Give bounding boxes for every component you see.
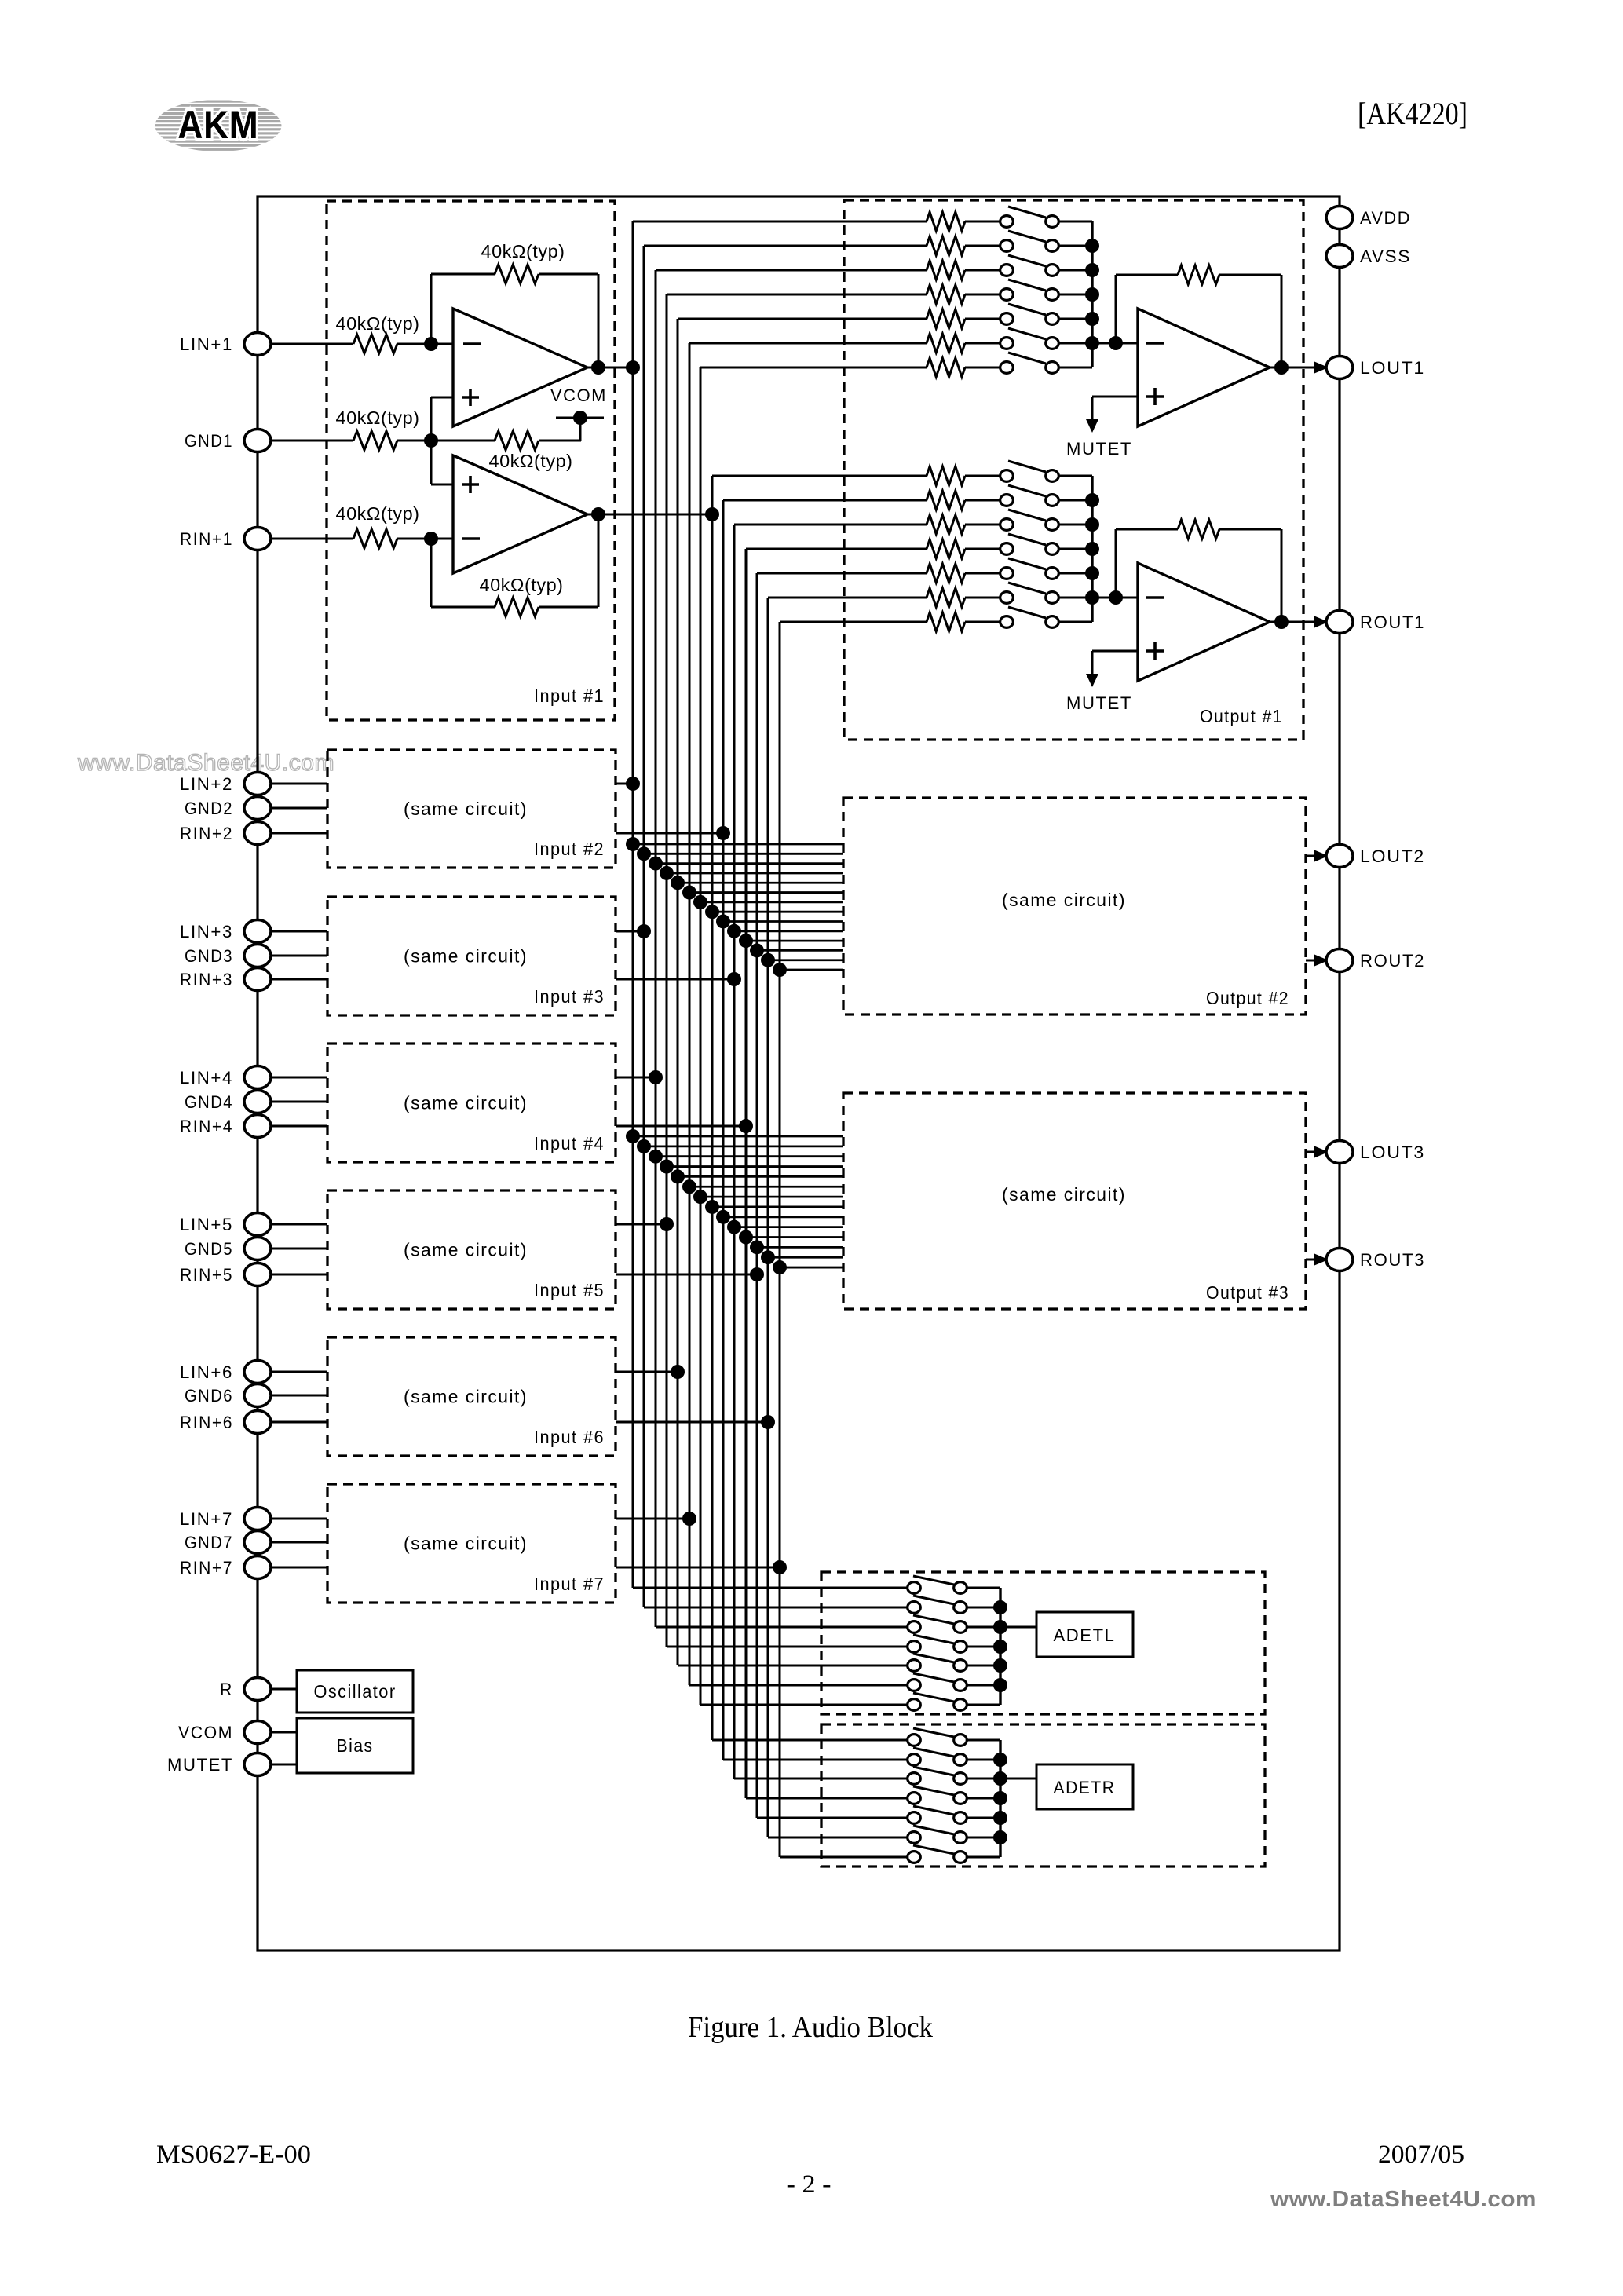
pin GND1 [185,430,271,452]
wire Output #1 R feedback to output [1281,529,1283,622]
resistor 40k RIN+1 series [336,503,420,548]
node ADETR bar junction row 4 [993,1791,1007,1805]
node Output #1 L output feedback junction [1274,360,1289,375]
wire Output #1 L row 7 to switch [965,367,1000,369]
wire pin MUTET lead [270,1764,297,1766]
pin LIN+7 [180,1508,271,1530]
node L3 Output #3 tap [649,1150,663,1164]
svg-text:Input #5: Input #5 [534,1280,605,1300]
switch ADETL row 1 [908,1576,967,1593]
Bias block [297,1718,413,1773]
arrow LOUT2 [1314,850,1329,862]
switch ADETL row 7 [908,1693,967,1710]
wire pin RIN+5 lead [270,1274,327,1276]
svg-text:GND4: GND4 [185,1092,233,1112]
pin VCOM [178,1721,271,1744]
wire bus R4 vertical [745,549,748,1798]
pin LIN+4 [180,1066,271,1089]
node L3 Output #2 tap [649,857,663,871]
wire L4 to Output #3 [667,1165,843,1168]
switch Output #1 L row 2 [1000,231,1059,251]
node ADETR bar junction row 5 [993,1811,1007,1825]
node R5 Output #3 tap [750,1240,764,1254]
arrow LOUT3 [1314,1146,1329,1158]
svg-text:VCOM: VCOM [178,1723,233,1742]
wire Output #1 R row 1 switch to bar [1059,475,1092,477]
svg-text:Input #4: Input #4 [534,1133,605,1153]
node R2 Output #3 tap [716,1210,730,1224]
node Output #1 L bar junction row 5 [1085,312,1099,326]
wire bus L1 vertical [632,221,634,1588]
wire L7 to Output #3 [700,1196,843,1198]
wire bus to ADETL row 6 [689,1684,907,1687]
wire L1 to Output #2 [633,843,843,846]
wire Output #1 R row 4 switch to bar [1059,548,1092,550]
wire Output #1 L row 6 from bus [689,342,927,345]
node Output #1 L feedback tap [1109,336,1123,350]
wire Input R5 output stub [616,1274,757,1276]
pin GND5 [185,1238,271,1260]
svg-text:ROUT1: ROUT1 [1360,612,1425,632]
pin GND2 [185,797,271,820]
wire bus to ADETL row 7 [700,1704,907,1706]
svg-text:40kΩ(typ): 40kΩ(typ) [336,313,420,334]
wire bus to ADETR row 5 [757,1817,907,1819]
node VCOM [550,386,607,425]
svg-text:GND6: GND6 [185,1386,233,1406]
wire Output #1 R row 7 switch to bar [1059,621,1092,623]
wire ADETR row 3 to bar [967,1778,1000,1780]
switch ADETR row 2 [908,1748,967,1765]
node L5 bus junction [671,1365,685,1379]
wire Input R4 output stub [616,1125,746,1128]
node Output #1 R feedback tap [1109,590,1123,605]
wire pin GND2 lead [270,807,327,810]
wire Output #1 L row 5 to switch [965,318,1000,320]
node Output #1 L bar junction row 3 [1085,263,1099,277]
wire Output #1 R row 2 switch to bar [1059,499,1092,502]
node R3 Output #3 tap [727,1220,741,1234]
svg-text:www.DataSheet4U.com: www.DataSheet4U.com [1270,2187,1537,2212]
svg-text:AVSS: AVSS [1360,247,1411,266]
wire to LOUT3 [1306,1151,1325,1153]
resistor Output #1 L ladder row 5 [927,309,965,328]
resistor Output #1 R ladder row 6 [927,588,965,607]
svg-text:(same circuit): (same circuit) [404,1240,528,1260]
node R4 Output #2 tap [739,934,753,948]
wire to ROUT1 [1322,621,1325,623]
wire Output #1 L row 6 to switch [965,342,1000,345]
node ADETR bar junction row 2 [993,1753,1007,1767]
wire ADETL row 5 to bar [967,1665,1000,1667]
node R6 Output #3 tap [761,1250,775,1264]
wire Output #1 R row 5 switch to bar [1059,572,1092,575]
wire R4 to Output #2 [746,940,843,942]
wire Output #1 R row 3 to switch [965,524,1000,526]
node L6 Output #3 tap [682,1179,696,1194]
node L1 feedback junction [591,360,605,375]
wire bus to ADETR row 6 [768,1837,907,1839]
resistor Output #1 L ladder row 7 [927,358,965,377]
wire bar to ADETL block [1000,1626,1036,1629]
node L1 bus junction [626,360,640,375]
wire R6 to Output #2 [768,959,843,961]
switch Output #1 R row 4 [1000,534,1059,554]
wire Output #1 L row 2 switch to bar [1059,245,1092,247]
node R5 Output #2 tap [750,943,764,957]
svg-text:40kΩ(typ): 40kΩ(typ) [489,451,573,471]
svg-text:LIN+1: LIN+1 [180,335,233,354]
svg-text:MUTET: MUTET [1066,693,1132,713]
wire ADETL row 6 to bar [967,1684,1000,1687]
wire L3 to Output #2 [656,862,843,865]
pin LIN+6 [180,1361,271,1384]
wire pin LIN+2 lead [270,783,327,785]
wire R3 to Output #2 [734,930,843,932]
wire bus to ADETR row 3 [734,1778,907,1780]
wire Output #1 L row 5 from bus [678,318,927,320]
wire Input L3 output stub [616,1077,656,1079]
wire L6 to Output #2 [689,891,843,894]
wire to LOUT1 [1322,367,1325,369]
wire Input L1 output stub [616,783,633,785]
wire Output #1 L row 3 to switch [965,269,1000,272]
wire pin GND3 lead [270,955,327,957]
wire R4 to Output #3 [746,1236,843,1238]
switch ADETR row 1 [908,1728,967,1746]
pin RIN+4 [180,1115,271,1138]
wire Output #1 R row 4 to switch [965,548,1000,550]
switch ADETR row 6 [908,1826,967,1843]
op-amp Output #1 L [1138,309,1270,426]
wire bus R5 vertical [756,573,758,1818]
pin LIN+3 [180,920,271,943]
wire Output #1 R row 5 from bus [757,572,927,575]
switch Output #1 L row 3 [1000,255,1059,276]
svg-text:LIN+6: LIN+6 [180,1362,233,1382]
wire to ROUT2 [1306,960,1325,962]
node Output #1 R output feedback junction [1274,615,1289,629]
svg-text:VCOM: VCOM [550,386,607,405]
wire bus R7 vertical [779,622,781,1857]
Input #3 dashed box [327,897,616,1015]
node R4 Output #3 tap [739,1230,753,1245]
svg-text:Oscillator: Oscillator [314,1681,397,1702]
arrow LOUT1 [1314,362,1329,374]
node ADETL bar junction row 5 [993,1658,1007,1673]
node L4 Output #2 tap [660,866,674,880]
pin LIN+1 [180,333,271,356]
switch ADETL row 2 [908,1596,967,1613]
node L6 bus junction [682,1512,696,1526]
wire Output #1 L row 4 to switch [965,294,1000,296]
wire pin RIN+3 lead [270,978,327,981]
wire U1B feedback up to output [598,514,600,607]
node L5 Output #3 tap [671,1169,685,1183]
wire R5 to Output #2 [757,949,843,952]
node R1 feedback junction [591,507,605,521]
pin RIN+2 [180,822,271,845]
svg-text:MUTET: MUTET [1066,439,1132,459]
svg-text:LIN+2: LIN+2 [180,774,233,794]
wire U1B feedback down [430,539,433,607]
node R1 bus junction [705,507,719,521]
switch Output #1 L row 1 [1000,207,1059,227]
switch ADETR row 7 [908,1845,967,1863]
MUTET arrow Output #1 R [1066,674,1132,713]
switch Output #1 R row 1 [1000,461,1059,481]
wire Output #1 R row 1 to switch [965,475,1000,477]
node L1 bus junction [626,777,640,791]
wire ADETR row 5 to bar [967,1817,1000,1819]
wire pin RIN+6 lead [270,1421,327,1424]
chip boundary box [258,196,1340,1951]
wire Output #1 L row 1 to switch [965,221,1000,223]
svg-text:RIN+4: RIN+4 [180,1117,233,1136]
node L2 Output #2 tap [637,846,651,861]
switch Output #1 L row 4 [1000,280,1059,300]
wire R5 to Output #3 [757,1246,843,1249]
wire L7 to Output #2 [700,901,843,903]
pin GND3 [185,945,271,967]
wire Output #1 L row 7 switch to bar [1059,367,1092,369]
wire pin RIN+4 lead [270,1125,327,1128]
wire Output #1 R row 6 from bus [768,597,927,599]
ADETR block [1036,1764,1133,1809]
wire Output #1 L row 7 from bus [700,367,927,369]
wire ADETL row 3 to bar [967,1626,1000,1629]
MUTET arrow Output #1 L [1066,419,1132,459]
resistor 40k U1A feedback [431,241,598,283]
node ADETL bar junction row 4 [993,1640,1007,1654]
op-amp Output #1 R [1138,563,1270,681]
figure caption [688,2011,933,2044]
resistor Output #1 R ladder row 5 [927,564,965,583]
wire Output #1 R row 3 switch to bar [1059,524,1092,526]
switch ADETL row 5 [908,1654,967,1671]
node R3 Output #2 tap [727,924,741,938]
node Output #1 R bar junction row 6 [1085,590,1099,605]
wire Output #1 L row 2 to switch [965,245,1000,247]
wire bus R6 vertical [767,598,769,1837]
wire pin LIN+6 lead [270,1371,327,1373]
node R1 Output #3 tap [705,1200,719,1214]
resistor 40k U1B feedback [431,575,598,616]
wire Input R7 output stub [616,1567,780,1569]
wire GND1 to U1A non-inverting input [431,397,453,441]
node L1 Output #2 tap [626,837,640,851]
svg-text:Output #2: Output #2 [1206,988,1289,1008]
switch ADETR row 5 [908,1806,967,1823]
pin MUTET [167,1753,271,1776]
node ADETL bar junction row 2 [993,1600,1007,1614]
node Output #1 R bar junction row 5 [1085,566,1099,580]
wire R7 to Output #2 [780,969,843,971]
wire pin LIN+4 lead [270,1077,327,1079]
wire L5 to Output #2 [678,882,843,884]
node L5 Output #2 tap [671,876,685,890]
wire U1A feedback down to output [598,274,600,367]
wire Output #1 R summing bar [1091,476,1093,622]
arrow ROUT2 [1314,955,1329,967]
switch Output #1 L row 5 [1000,304,1059,324]
wire pin LIN+7 lead [270,1518,327,1520]
node L4 bus junction [660,1217,674,1231]
wire Output #1 L feedback riser [1115,275,1117,343]
svg-text:(same circuit): (same circuit) [404,1534,528,1554]
svg-text:GND5: GND5 [185,1239,233,1259]
Input #4 dashed box [327,1044,616,1162]
ADETR dashed box [821,1724,1265,1866]
wire Output #1 L row 1 from bus [633,221,927,223]
wire pin LIN+3 lead [270,930,327,933]
node Output #1 R bar junction row 3 [1085,517,1099,532]
Input #7 dashed box [327,1484,616,1603]
pin AVSS [1326,245,1411,268]
wire Output #1 R row 6 to switch [965,597,1000,599]
svg-text:LOUT1: LOUT1 [1360,358,1425,378]
arrow ROUT1 [1314,616,1329,628]
svg-text:LIN+7: LIN+7 [180,1509,233,1529]
arrow ROUT3 [1314,1254,1329,1266]
svg-text:LOUT2: LOUT2 [1360,846,1425,866]
node R4 bus junction [739,1119,753,1133]
wire Output #1 L row 6 switch to bar [1059,342,1092,345]
wire L1 output to bus [587,367,633,369]
wire pin GND5 lead [270,1248,327,1250]
wire bus L7 vertical [700,367,702,1705]
wire bus to ADETL row 3 [656,1626,907,1629]
svg-text:GND1: GND1 [185,431,233,451]
wire Input R2 output stub [616,832,723,835]
wire LIN+1 resistor to op-amp U1A inverting input [397,343,453,345]
pin AVDD [1326,207,1411,229]
switch Output #1 L row 7 [1000,353,1059,373]
svg-text:(same circuit): (same circuit) [404,799,528,819]
wire ADETR bar [999,1740,1001,1857]
wire R1 output to bus [587,514,712,516]
wire pin GND6 lead [270,1395,327,1397]
svg-text:LIN+3: LIN+3 [180,922,233,941]
node R7 Output #2 tap [773,963,787,977]
switch Output #1 R row 6 [1000,583,1059,603]
resistor Output #1 L ladder row 6 [927,334,965,353]
wire riser to VCOM node [579,418,582,441]
node L4 Output #3 tap [660,1160,674,1174]
wire Output #1 L row 4 from bus [667,294,927,296]
wire bus L5 vertical [677,319,679,1665]
date [1378,2141,1464,2169]
node Output #1 R bar junction row 2 [1085,493,1099,507]
wire Output #1 L row 3 from bus [656,269,927,272]
wire U1A feedback up [430,274,433,344]
switch Output #1 R row 3 [1000,510,1059,530]
svg-text:(same circuit): (same circuit) [1002,1184,1126,1205]
node L7 Output #2 tap [693,895,707,909]
wire R2 to Output #3 [723,1216,843,1218]
wire Output #1 L op-amp output [1270,367,1322,369]
doc number [156,2141,311,2169]
wire Output #1 L summing bar [1091,221,1093,367]
node Output #1 L bar junction row 6 [1085,336,1099,350]
resistor 40k GND1 to VCOM [489,431,582,471]
svg-text:ROUT3: ROUT3 [1360,1250,1425,1270]
switch ADETR row 3 [908,1767,967,1784]
wire pin LIN+1 lead [270,343,353,345]
wire Output #1 L non-inverting to MUTET [1092,397,1138,420]
wire pin VCOM lead [270,1731,297,1734]
switch Output #1 R row 7 [1000,607,1059,627]
resistor Output #1 R ladder row 2 [927,491,965,510]
node Output #1 R bar junction row 4 [1085,542,1099,556]
wire pin RIN+7 lead [270,1567,327,1569]
pin LOUT1 [1326,356,1425,379]
svg-text:(same circuit): (same circuit) [404,946,528,967]
svg-text:ADETR: ADETR [1054,1778,1116,1797]
svg-text:AKM: AKM [178,103,259,147]
svg-text:RIN+5: RIN+5 [180,1265,233,1285]
node L2 bus junction [637,924,651,938]
resistor Output #1 R ladder row 7 [927,612,965,631]
wire R2 to Output #2 [723,920,843,923]
wire Output #1 R row 2 from bus [723,499,927,502]
node R7 Output #3 tap [773,1260,787,1274]
wire bus R1 vertical [711,476,714,1740]
svg-text:40kΩ(typ): 40kΩ(typ) [481,241,565,261]
pin LIN+5 [180,1213,271,1236]
wire ADETR row 2 to bar [967,1759,1000,1761]
switch ADETR row 4 [908,1786,967,1804]
switch ADETL row 3 [908,1615,967,1632]
wire Output #1 L bar to op-amp inverting input [1092,342,1138,345]
node Output #1 L bar junction row 4 [1085,287,1099,302]
node L3 bus junction [649,1070,663,1084]
switch Output #1 R row 5 [1000,558,1059,579]
resistor Output #1 L ladder row 1 [927,212,965,231]
resistor 40k GND1 series [336,408,420,450]
watermark bottom right [1270,2187,1537,2212]
wire R6 to Output #3 [768,1256,843,1259]
node ADETL bar junction row 3 [993,1620,1007,1634]
wire Output #1 L row 3 switch to bar [1059,269,1092,272]
wire Input R3 output stub [616,978,734,981]
node L2 Output #3 tap [637,1139,651,1153]
wire L2 to Output #3 [644,1145,843,1147]
wire RIN+1 resistor to op-amp U1B inverting input [397,538,453,540]
svg-text:[AK4220]: [AK4220] [1358,96,1468,131]
wire bus L4 vertical [666,294,668,1647]
wire bus to ADETL row 2 [644,1607,907,1609]
wire L4 to Output #2 [667,872,843,875]
wire Output #1 R row 1 from bus [712,475,927,477]
wire Input L4 output stub [616,1223,667,1226]
node R1 Output #2 tap [705,905,719,919]
pin RIN+6 [180,1411,271,1434]
wire bus to ADETL row 1 [633,1587,907,1589]
svg-text:Input #6: Input #6 [534,1427,605,1447]
svg-text:LOUT3: LOUT3 [1360,1143,1425,1162]
wire Output #1 R bar to op-amp inverting input [1092,597,1138,599]
svg-text:RIN+7: RIN+7 [180,1558,233,1578]
wire bar to ADETR block [1000,1778,1036,1780]
svg-text:MS0627-E-00: MS0627-E-00 [156,2141,311,2169]
ADETL dashed box [821,1572,1265,1714]
svg-text:ADETL: ADETL [1054,1625,1116,1645]
wire Output #1 L row 5 switch to bar [1059,318,1092,320]
wire Output #1 R feedback riser [1115,529,1117,598]
svg-text:40kΩ(typ): 40kΩ(typ) [336,503,420,524]
wire Input R6 output stub [616,1421,768,1424]
